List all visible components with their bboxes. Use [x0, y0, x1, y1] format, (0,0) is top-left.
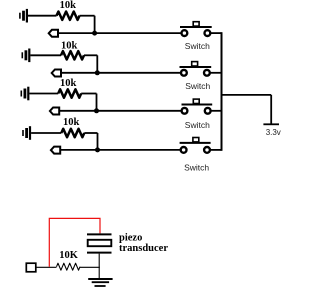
svg-text:Switch: Switch — [185, 120, 210, 130]
wire — [80, 15, 95, 17]
svg-text:10k: 10k — [63, 117, 80, 128]
wire — [211, 110, 221, 112]
wire — [60, 149, 180, 151]
wire — [58, 32, 181, 34]
wire — [96, 94, 98, 111]
switch S4 — [180, 138, 211, 153]
switch S1 — [180, 22, 212, 36]
svg-text:Switch: Switch — [185, 41, 210, 51]
wire — [30, 54, 61, 56]
wire — [210, 72, 221, 74]
ground G1 — [19, 9, 28, 23]
connector J5 — [26, 263, 36, 272]
svg-text:transducer: transducer — [119, 243, 168, 254]
wire — [211, 32, 222, 34]
connector P3 — [50, 108, 59, 115]
wire — [96, 55, 98, 73]
resistor R5 — [57, 263, 81, 270]
wire — [211, 149, 222, 151]
ground G4 — [22, 126, 31, 140]
wire — [81, 93, 96, 95]
wire — [29, 93, 58, 95]
junction node A4 — [95, 147, 100, 152]
wire — [97, 133, 99, 150]
svg-text:10k: 10k — [60, 0, 77, 11]
piezo transducer X1 — [87, 234, 112, 252]
wire — [31, 132, 61, 134]
wire — [84, 132, 97, 134]
wire — [94, 16, 96, 33]
svg-text:10K: 10K — [59, 250, 78, 261]
wire — [59, 110, 181, 112]
wire — [36, 266, 57, 268]
svg-text:Switch: Switch — [185, 81, 210, 91]
connector P2 — [52, 70, 61, 77]
wire bus — [221, 32, 223, 151]
switch S3 — [182, 99, 213, 114]
svg-text:3.3v: 3.3v — [266, 128, 281, 137]
resistor R4 — [61, 129, 84, 137]
svg-text:10k: 10k — [60, 78, 77, 89]
ground G5 — [88, 279, 112, 286]
resistor R2 — [61, 51, 84, 59]
wire — [222, 94, 272, 96]
wire — [270, 95, 272, 124]
switch S2 — [180, 62, 212, 76]
wire — [80, 266, 100, 268]
red wire — [49, 218, 100, 266]
svg-text:piezo: piezo — [119, 232, 142, 243]
wire — [28, 15, 57, 17]
svg-text:10k: 10k — [61, 41, 78, 52]
wire — [98, 254, 100, 279]
wire — [84, 54, 97, 56]
junction node A2 — [95, 70, 100, 75]
ground G2 — [22, 49, 31, 63]
connector P1 — [49, 30, 58, 37]
resistor R3 — [58, 89, 81, 97]
svg-text:Switch: Switch — [184, 163, 209, 173]
wire — [61, 72, 181, 74]
junction node A3 — [94, 108, 99, 113]
connector P4 — [51, 147, 60, 154]
junction node A1 — [92, 31, 97, 36]
resistor R1 — [57, 12, 80, 20]
power terminal 3.3v — [263, 123, 279, 125]
ground G3 — [21, 87, 30, 101]
